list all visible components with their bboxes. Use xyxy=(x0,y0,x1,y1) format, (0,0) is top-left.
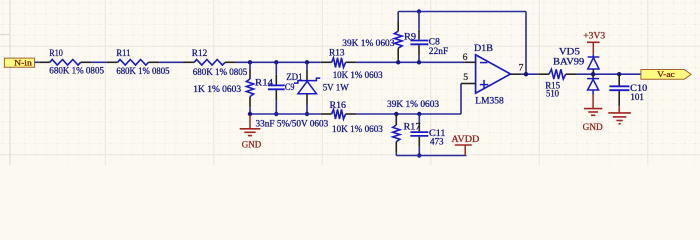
capacitor C8 xyxy=(410,9,448,64)
svg-text:10K 1% 0603: 10K 1% 0603 xyxy=(333,70,383,80)
wire U1 out xyxy=(521,73,538,75)
svg-text:33nF 5%/50V 0603: 33nF 5%/50V 0603 xyxy=(256,119,329,129)
zener diode ZD1 xyxy=(286,60,349,116)
wire AVDD rail xyxy=(396,155,466,157)
svg-text:BAV99: BAV99 xyxy=(553,56,585,66)
node R12/R14 junction xyxy=(248,60,252,64)
svg-text:GND: GND xyxy=(242,139,262,149)
svg-text:R16: R16 xyxy=(330,100,347,110)
power +3V3 xyxy=(583,30,605,54)
svg-text:5: 5 xyxy=(463,72,468,82)
capacitor C11 xyxy=(410,112,445,158)
capacitor C9 xyxy=(256,60,329,129)
svg-text:680K 1% 0805: 680K 1% 0805 xyxy=(116,66,170,76)
capacitor C10 xyxy=(609,72,647,106)
resistor R17 xyxy=(387,99,440,156)
svg-text:39K 1% 0603: 39K 1% 0603 xyxy=(387,99,440,109)
resistor R14 xyxy=(193,62,273,114)
svg-text:R17: R17 xyxy=(404,122,421,132)
svg-text:R11: R11 xyxy=(116,48,130,58)
svg-text:R12: R12 xyxy=(192,48,208,58)
resistor R15 xyxy=(538,69,576,98)
resistor R9 xyxy=(342,12,416,65)
svg-text:680K 1% 0805: 680K 1% 0805 xyxy=(49,66,104,76)
port V-ac xyxy=(641,69,691,79)
resistor R11 xyxy=(107,48,170,76)
power AVDD xyxy=(451,134,479,156)
svg-text:LM358: LM358 xyxy=(475,95,504,105)
ground (under C10) xyxy=(608,106,631,124)
svg-text:N-in: N-in xyxy=(14,58,32,68)
ground GND (left) xyxy=(240,115,262,149)
wire ground rail xyxy=(250,113,321,115)
wire R15 to V-ac xyxy=(576,73,641,75)
svg-text:7: 7 xyxy=(519,62,524,72)
svg-text:680K 1% 0805: 680K 1% 0805 xyxy=(193,67,248,77)
svg-text:D1B: D1B xyxy=(474,43,493,53)
svg-text:+3V3: +3V3 xyxy=(583,30,605,40)
svg-text:1K 1% 0603: 1K 1% 0603 xyxy=(193,84,241,94)
node output/feedback junction xyxy=(524,72,528,76)
resistor R16 xyxy=(321,100,384,134)
svg-text:473: 473 xyxy=(430,136,444,146)
wire R13 to U1 pin6 xyxy=(356,61,464,63)
svg-text:5V 1W: 5V 1W xyxy=(323,83,349,93)
wire node rail top xyxy=(236,61,321,63)
port N-in xyxy=(4,58,34,68)
svg-text:AVDD: AVDD xyxy=(451,134,479,144)
diode VD5 (from GND) xyxy=(587,74,599,94)
node R14/GND junction xyxy=(248,112,252,116)
svg-text:R13: R13 xyxy=(329,47,345,57)
ground GND (right) xyxy=(583,95,603,133)
pin 6 label xyxy=(463,52,468,62)
resistor R12 xyxy=(184,48,248,77)
svg-text:10K 1% 0603: 10K 1% 0603 xyxy=(332,124,383,134)
svg-text:ZD1: ZD1 xyxy=(286,72,302,82)
wire N-in to R10 xyxy=(35,61,40,63)
wire R11 to R12 xyxy=(159,61,183,63)
svg-text:C9: C9 xyxy=(285,82,295,92)
svg-text:101: 101 xyxy=(630,92,644,102)
pin 5 label xyxy=(463,72,468,82)
svg-text:VD5: VD5 xyxy=(559,46,581,56)
op-amp D1B xyxy=(461,43,521,105)
svg-text:510: 510 xyxy=(546,89,559,99)
wire R16 to U1 pin5 xyxy=(356,84,461,115)
svg-text:22nF: 22nF xyxy=(429,46,448,56)
wire feedback top xyxy=(398,12,526,75)
node VD5 junction xyxy=(591,72,595,76)
svg-text:V-ac: V-ac xyxy=(657,69,675,79)
resistor R13 xyxy=(321,47,383,80)
svg-text:R10: R10 xyxy=(49,48,63,58)
svg-text:GND: GND xyxy=(583,122,603,132)
resistor R10 xyxy=(39,48,104,76)
pin 7 label xyxy=(519,62,524,72)
svg-text:6: 6 xyxy=(463,52,468,62)
svg-text:39K 1% 0603: 39K 1% 0603 xyxy=(342,38,395,48)
diode VD5 (to +3V3) xyxy=(553,46,599,74)
wire R10 to R11 xyxy=(91,61,107,63)
svg-text:C8: C8 xyxy=(429,36,440,46)
